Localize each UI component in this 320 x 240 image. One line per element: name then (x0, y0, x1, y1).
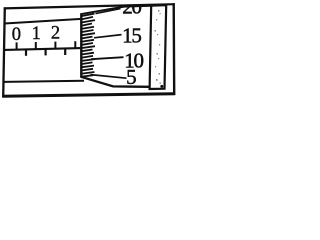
sleeve bottom edge (5, 81, 85, 82)
sleeve top edge (5, 19, 82, 24)
paper background (0, 0, 177, 99)
thimble tick 15 (94, 35, 122, 38)
svg-text:2: 2 (51, 24, 60, 44)
thimble tick 5 (91, 75, 127, 79)
outer frame bottom (2, 94, 175, 97)
thimble hatched bevel (82, 14, 95, 77)
thimble tick 20 (96, 9, 121, 14)
sleeve datum line (5, 48, 82, 50)
thimble bottom edge (81, 77, 149, 87)
svg-text:0: 0 (12, 25, 21, 45)
outer frame left (3, 7, 5, 97)
mm tick at 1 (35, 42, 37, 49)
outer frame top (4, 4, 175, 8)
ratchet speckles (155, 10, 161, 84)
thimble left edge (80, 13, 82, 77)
svg-text:15: 15 (122, 23, 141, 47)
half-mm tick c (64, 49, 66, 56)
half-mm tick b (44, 49, 46, 56)
mm tick at 0 (16, 42, 18, 49)
ratchet knob body (150, 5, 167, 89)
mm tick at 3 (74, 41, 76, 48)
thimble top edge (81, 6, 151, 14)
ratchet corner blob (160, 85, 163, 88)
svg-text:1: 1 (32, 24, 41, 44)
mm tick at 2 (54, 42, 56, 49)
thimble tick 10 (91, 57, 124, 59)
outer frame right (172, 3, 175, 95)
white mask above thimble top edge (81, 0, 151, 14)
half-mm tick a (25, 49, 27, 55)
